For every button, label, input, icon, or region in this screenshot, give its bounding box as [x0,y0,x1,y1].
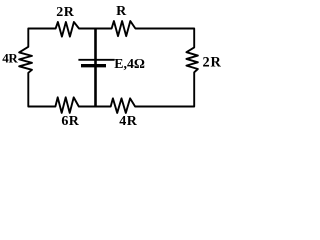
svg-text:6R: 6R [61,114,79,129]
svg-text:4R: 4R [119,114,138,129]
svg-text:4R: 4R [2,50,18,65]
svg-text:E,4Ω: E,4Ω [114,56,145,71]
svg-text:R: R [116,4,127,19]
svg-text:2R: 2R [56,5,75,20]
svg-text:2R: 2R [203,55,222,71]
